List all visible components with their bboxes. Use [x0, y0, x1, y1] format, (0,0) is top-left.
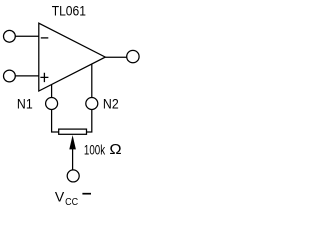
- potentiometer R1 body: [59, 129, 87, 134]
- Vcc- terminal circle: [67, 170, 79, 182]
- wire from op-amp bottom edge to node N2: [91, 64, 93, 98]
- svg-text:N1: N1: [17, 97, 33, 112]
- wire N2 to potentiometer right end: [87, 110, 92, 133]
- svg-text:V: V: [55, 188, 65, 204]
- inverting input terminal circle: [3, 30, 15, 42]
- wire output: [105, 56, 127, 58]
- wire N1 to potentiometer left end: [52, 110, 59, 133]
- svg-text:N2: N2: [103, 97, 119, 112]
- op-amp U1 triangle body: [39, 23, 106, 91]
- svg-text:Ω: Ω: [109, 142, 121, 158]
- output terminal circle: [127, 50, 139, 62]
- node N1 circle: [46, 98, 58, 110]
- plus sign inside op-amp: [40, 73, 48, 82]
- wire inverting input: [15, 35, 39, 37]
- non-inverting input terminal circle: [3, 70, 15, 82]
- svg-text:TL061: TL061: [52, 3, 86, 19]
- svg-text:100k: 100k: [84, 141, 106, 157]
- node N2 circle: [86, 98, 98, 110]
- svg-text:CC: CC: [65, 197, 78, 208]
- wire from op-amp bottom edge to node N1: [51, 85, 53, 98]
- potentiometer wiper arrowhead: [69, 135, 76, 149]
- wire non-inverting input: [15, 75, 39, 77]
- wiper wire stem: [72, 148, 74, 170]
- minus sign inside op-amp: [41, 37, 49, 39]
